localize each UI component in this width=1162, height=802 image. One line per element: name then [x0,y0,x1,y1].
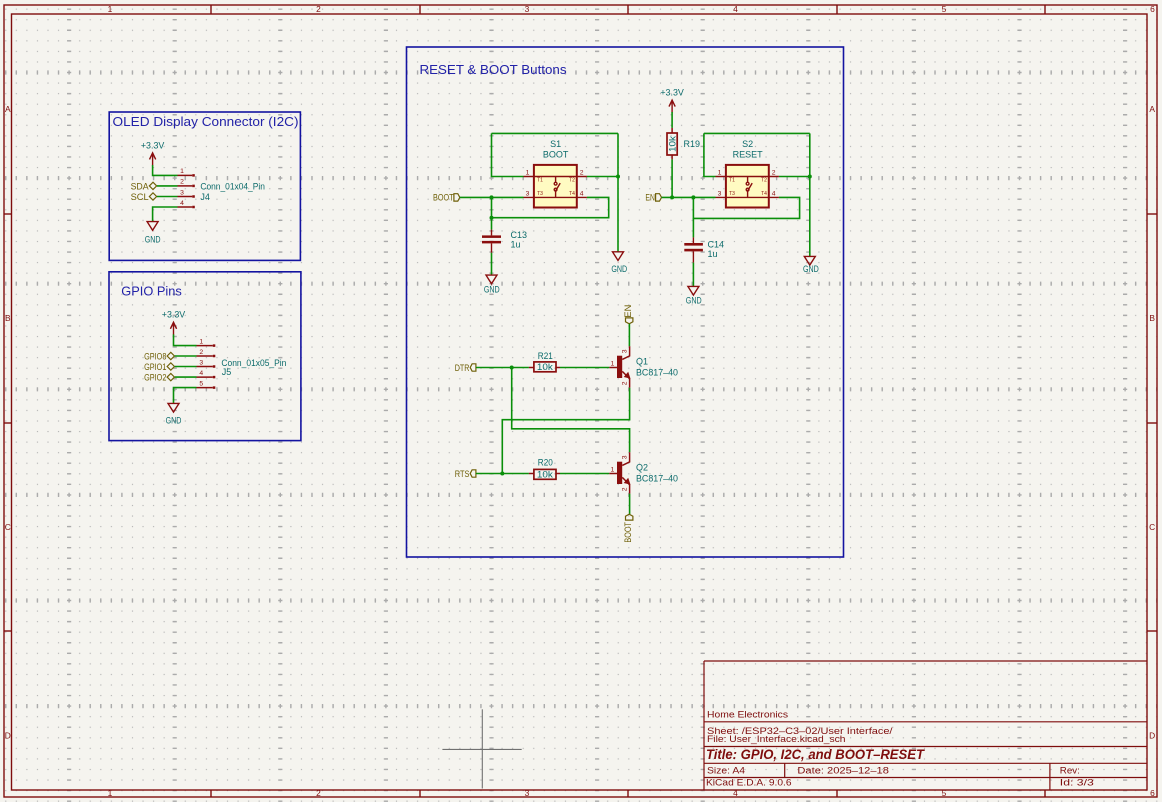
svg-text:1: 1 [199,338,203,345]
junction S2 pin2/GND [808,175,812,179]
svg-text:2: 2 [772,170,776,177]
svg-text:File: User_Interface.kicad_sch: File: User_Interface.kicad_sch [707,734,846,744]
wire [587,176,618,178]
power +3.3V R19 [660,87,684,112]
resistor R21 10k [529,351,560,372]
svg-text:+3.3V: +3.3V [660,87,684,97]
capacitor C14 1u [684,237,724,262]
svg-text:3: 3 [525,788,530,798]
junction R19/EN [670,195,674,199]
svg-text:10k: 10k [537,362,554,372]
svg-text:1: 1 [611,361,615,368]
connector J4 Conn_01x04_Pin [178,174,195,208]
svg-text:4: 4 [733,788,738,798]
svg-text:Size: A4: Size: A4 [707,765,745,775]
wire [175,376,197,378]
svg-text:GND: GND [611,264,627,274]
svg-text:EN: EN [645,193,655,203]
svg-text:T3: T3 [729,191,735,197]
svg-text:B: B [5,313,11,323]
svg-text:6: 6 [1150,788,1155,798]
svg-text:+3.3V: +3.3V [162,310,186,320]
wire [476,473,529,475]
svg-text:5: 5 [199,380,203,387]
transistor Q1 BC817&#8211;40 [609,346,678,387]
ground S1 [611,252,627,274]
svg-text:Q2: Q2 [636,462,648,472]
svg-text:3: 3 [718,191,722,198]
svg-text:C: C [5,522,11,532]
svg-text:GPIO Pins: GPIO Pins [121,284,182,298]
power +3.3V OLED [141,140,165,165]
svg-text:BOOT: BOOT [623,522,633,543]
wire [617,177,619,252]
graphic box: OLED Display Connector section [109,112,300,260]
svg-text:1: 1 [180,168,184,175]
svg-text:BC817–40: BC817–40 [636,473,678,483]
wire [671,159,673,197]
hierarchical label GPIO2 [144,373,174,383]
ground OLED [145,222,161,245]
svg-text:RESET: RESET [733,150,764,160]
wire [662,196,716,198]
wire [492,197,609,217]
svg-text:EN: EN [623,305,633,318]
svg-text:Rev:: Rev: [1060,765,1080,775]
wire [628,324,630,347]
svg-text:GND: GND [166,415,182,425]
hierarchical label EN [645,193,661,203]
ground GPIO [166,403,182,425]
svg-text:D: D [5,731,11,741]
svg-text:5: 5 [942,4,947,14]
svg-text:1: 1 [108,788,113,798]
svg-text:D: D [1149,731,1155,741]
wire [809,133,811,176]
svg-text:3: 3 [622,455,629,459]
svg-text:BOOT: BOOT [543,150,569,160]
svg-text:10k: 10k [537,469,554,479]
svg-text:GPIO8: GPIO8 [144,351,166,361]
svg-text:Home Electronics: Home Electronics [707,710,789,720]
wire [693,197,799,218]
wire [512,368,630,453]
svg-text:J5: J5 [222,367,232,377]
svg-text:1: 1 [526,170,530,177]
wire [629,494,631,514]
svg-text:S1: S1 [550,139,561,149]
wire [692,263,694,287]
svg-text:1: 1 [718,170,722,177]
hierarchical label SDA [131,181,157,191]
hierarchical label DTR [455,363,476,373]
svg-text:R19: R19 [684,139,701,149]
svg-text:6: 6 [1150,4,1155,14]
svg-text:T1: T1 [729,177,735,183]
svg-text:2: 2 [316,4,321,14]
connector J5 Conn_01x05_Pin [197,344,216,389]
resistor R19 10k [667,128,700,159]
svg-text:T1: T1 [537,177,543,183]
svg-text:Date: 2025–12–18: Date: 2025–12–18 [797,765,889,775]
svg-text:Q1: Q1 [636,356,648,366]
wire [704,132,810,134]
svg-text:BOOT: BOOT [433,193,454,203]
svg-text:R21: R21 [538,351,553,361]
hierarchical label SCL [131,192,157,202]
graphic box: GPIO Pins section [109,272,301,441]
junction RTS cross [500,472,504,476]
svg-text:2: 2 [622,381,629,385]
ground C13 [484,275,500,294]
wire [502,388,629,474]
svg-text:3: 3 [622,349,629,353]
capacitor C13 1u [482,230,527,253]
svg-text:1u: 1u [511,240,521,250]
wire [175,355,197,357]
svg-text:R20: R20 [538,457,553,467]
svg-text:SDA: SDA [131,181,150,191]
svg-text:10k: 10k [667,135,677,152]
wire [460,196,524,198]
svg-text:A: A [1149,104,1155,114]
hierarchical label EN (vertical) [623,305,633,324]
svg-text:4: 4 [772,191,776,198]
junction S1 pin2/GND [616,175,620,179]
svg-text:C14: C14 [708,239,725,249]
svg-text:Id: 3/3: Id: 3/3 [1060,778,1094,788]
wire [174,388,197,404]
svg-text:T2: T2 [569,177,575,183]
svg-text:GND: GND [145,235,161,245]
svg-text:B: B [1149,313,1155,323]
svg-text:SCL: SCL [131,192,149,202]
graphic box: RESET & BOOT Buttons section [407,47,844,557]
svg-text:GPIO1: GPIO1 [144,362,166,372]
switch S1 BOOT [524,139,587,208]
junction BOOT net [490,195,494,199]
wire [617,133,619,176]
svg-text:RTS: RTS [455,469,470,479]
svg-text:4: 4 [199,370,203,377]
wire [157,196,178,198]
svg-text:DTR: DTR [455,363,470,373]
svg-text:2: 2 [316,788,321,798]
svg-text:C13: C13 [511,230,528,240]
wire [560,367,609,369]
svg-text:OLED Display Connector (I2C): OLED Display Connector (I2C) [113,115,299,129]
power +3.3V GPIO [162,310,186,335]
svg-text:2: 2 [180,179,184,186]
svg-text:GND: GND [686,295,702,305]
svg-text:S2: S2 [742,139,753,149]
svg-text:A: A [5,104,11,114]
hierarchical label GPIO1 [144,362,174,372]
transistor Q2 BC817&#8211;40 [609,452,678,493]
svg-text:1u: 1u [708,249,718,259]
hierarchical label BOOT [433,193,460,203]
svg-text:GND: GND [484,284,500,294]
svg-text:4: 4 [733,4,738,14]
hierarchical label RTS [455,469,476,479]
svg-text:2: 2 [580,170,584,177]
wire [175,366,197,368]
svg-text:2: 2 [622,487,629,491]
wire [157,185,178,187]
svg-text:KiCad E.D.A. 9.0.6: KiCad E.D.A. 9.0.6 [706,778,792,788]
svg-text:GPIO2: GPIO2 [144,373,166,383]
svg-text:5: 5 [942,788,947,798]
svg-text:C: C [1149,522,1155,532]
svg-text:J4: J4 [200,192,210,202]
wire [692,218,694,237]
wire [492,132,619,134]
ground C14 [686,286,702,305]
wire [174,334,197,345]
svg-text:T2: T2 [761,177,767,183]
svg-text:RESET & BOOT Buttons: RESET & BOOT Buttons [420,63,567,77]
svg-text:1: 1 [108,4,113,14]
wire [671,112,673,128]
hierarchical label GPIO8 [144,351,174,361]
svg-text:2: 2 [199,349,203,356]
wire [560,473,609,475]
resistor R20 10k [529,457,560,479]
wire [492,133,524,176]
svg-text:3: 3 [526,191,530,198]
svg-text:4: 4 [580,191,584,198]
svg-text:BC817–40: BC817–40 [636,367,678,377]
wire [779,176,810,178]
svg-text:3: 3 [525,4,530,14]
junction DTR cross [510,366,514,370]
svg-text:T4: T4 [761,191,767,197]
wire [153,207,178,221]
wire [153,165,178,175]
svg-text:T4: T4 [569,191,575,197]
switch S2 RESET [716,139,779,208]
hierarchical label BOOT (vertical) [623,514,633,542]
junction C13 branch [490,216,494,220]
svg-text:Title: GPIO, I2C, and BOOT–RES: Title: GPIO, I2C, and BOOT–RESET [706,747,926,762]
wire [491,197,493,229]
svg-text:3: 3 [199,359,203,366]
svg-text:Conn_01x04_Pin: Conn_01x04_Pin [200,182,265,192]
wire [809,177,811,257]
wire [704,133,716,176]
ground S2 [803,256,819,273]
wire [491,253,493,275]
svg-text:4: 4 [180,200,184,207]
svg-text:+3.3V: +3.3V [141,140,165,150]
svg-text:3: 3 [180,189,184,196]
svg-text:T3: T3 [537,191,543,197]
junction C14 branch [691,195,695,199]
wire [476,367,529,369]
svg-text:GND: GND [803,264,819,274]
svg-text:1: 1 [611,467,615,474]
